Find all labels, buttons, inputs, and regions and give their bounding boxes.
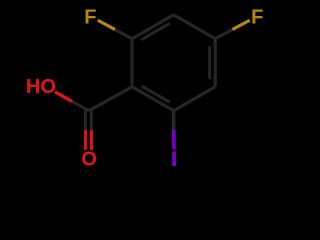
svg-text:HO: HO <box>26 76 56 98</box>
wire bond LL to carboxyl C <box>89 87 132 111</box>
svg-text:F: F <box>251 7 263 29</box>
svg-text:O: O <box>81 149 97 171</box>
wire C=O double left line red half <box>84 130 87 150</box>
wire bond UR to F2 gold half <box>232 20 249 29</box>
wire bond UR to F2 dark half <box>215 30 232 39</box>
wire C=O double right line red half <box>90 130 93 150</box>
wire ring bond UR-LR <box>214 39 217 87</box>
wire ring bond UL-T <box>132 15 174 39</box>
wire ring inner double UR-LR <box>208 46 211 79</box>
wire C=O double left line dark half <box>84 111 87 130</box>
atom label I (iodine) <box>172 151 176 166</box>
wire C=O double right line dark half <box>90 111 93 130</box>
wire ring bond LR-B <box>174 87 216 111</box>
wire bond B to I dark half <box>172 111 176 130</box>
wire bond UL to F1 gold half <box>98 20 115 29</box>
wire bond B to I purple half <box>172 130 176 149</box>
wire bond HO to C red half <box>55 92 72 101</box>
wire ring inner double LL-B <box>141 86 169 102</box>
wire bond UL to F1 dark half <box>115 30 132 39</box>
wire ring bond B-LL <box>132 87 174 111</box>
svg-text:F: F <box>84 7 96 29</box>
wire ring bond T-UR <box>174 15 216 39</box>
wire bond HO to C dark half <box>72 101 89 110</box>
wire ring inner double UL-T <box>141 23 169 39</box>
wire ring bond LL-UL <box>130 39 133 87</box>
